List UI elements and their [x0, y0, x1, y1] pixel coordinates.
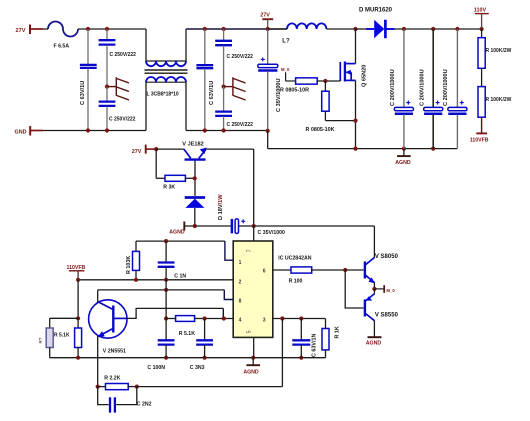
svg-text:V 2N5551: V 2N5551 — [103, 349, 126, 355]
svg-text:C 63V/1N: C 63V/1N — [312, 334, 318, 357]
svg-text:R 1K: R 1K — [335, 326, 341, 338]
capacitor C 35V/1000 decoupling — [232, 219, 285, 236]
transistor V S8550 — [365, 289, 399, 321]
svg-text:C 63V/1U: C 63V/1U — [80, 81, 86, 105]
wire — [195, 225, 232, 227]
power flag 27V mid-top — [260, 13, 273, 30]
svg-text:F 6.5A: F 6.5A — [54, 44, 70, 50]
ground AGND top section — [395, 149, 411, 167]
svg-text:AGND: AGND — [395, 160, 411, 166]
wire pin1 bend — [225, 241, 233, 260]
wire — [145, 82, 147, 131]
svg-text:6: 6 — [263, 269, 266, 275]
node — [76, 316, 80, 320]
ground AGND bottom — [243, 358, 260, 376]
node — [266, 129, 270, 133]
svg-text:C 3N3: C 3N3 — [190, 365, 205, 371]
node — [251, 356, 255, 360]
wire top mid — [186, 28, 287, 30]
node — [431, 27, 435, 31]
chassis ground #1 — [107, 77, 129, 100]
node — [455, 27, 459, 31]
svg-text:R?: R? — [38, 337, 43, 343]
resistor R 100K/2W #2 — [478, 87, 512, 133]
resistor R 3K — [156, 149, 195, 190]
wire bottom rail — [50, 357, 326, 359]
pin 7 — [247, 226, 254, 252]
node — [266, 27, 270, 31]
power flag 27V input — [16, 25, 44, 35]
svg-text:AGND: AGND — [366, 340, 382, 346]
node — [372, 287, 376, 291]
svg-text:R 103K: R 103K — [126, 256, 132, 274]
node — [164, 356, 168, 360]
node — [222, 27, 226, 31]
op-amp U1 IC UC2842AN box — [233, 241, 312, 337]
svg-text:AGND: AGND — [169, 230, 185, 236]
power flag 27V mid — [132, 145, 156, 155]
wire pin1 net — [136, 240, 225, 242]
node — [203, 128, 207, 132]
svg-text:C 250V/222: C 250V/222 — [227, 54, 254, 60]
node — [105, 27, 109, 31]
capacitor C 200V/1000U #2 — [420, 29, 443, 149]
wire — [77, 280, 79, 319]
wire pin8 bend — [224, 290, 233, 300]
wire GND rail left — [43, 130, 146, 132]
resistor R 2.2K — [98, 375, 137, 389]
node — [76, 356, 80, 360]
node — [164, 239, 168, 243]
capacitor C 250V/222 #3 — [215, 29, 253, 87]
svg-text:C 250V/222: C 250V/222 — [110, 52, 137, 58]
transistor Q 65N20 MOSFET — [340, 29, 367, 87]
wire — [185, 29, 187, 61]
transistor V 2N5551 — [89, 300, 127, 355]
capacitor C 100N — [147, 319, 174, 371]
resistor R 5.1K pin4 — [176, 316, 196, 337]
node — [252, 224, 256, 228]
wire — [356, 28, 367, 30]
power flag GND — [15, 126, 44, 136]
wire pin3 to comp — [281, 319, 283, 387]
capacitor C 250V/222 #2 — [99, 87, 136, 131]
chassis ground #2 — [224, 77, 246, 100]
capacitor C 200V/1000U #1 — [390, 29, 413, 149]
node — [480, 27, 484, 31]
transistor V S8050 — [365, 254, 399, 283]
node — [431, 147, 435, 151]
node — [96, 385, 100, 389]
node — [402, 147, 406, 151]
svg-text:V JE182: V JE182 — [182, 141, 203, 147]
node — [299, 356, 303, 360]
svg-text:C 200V/1000U: C 200V/1000U — [443, 69, 449, 106]
inductor L? — [268, 23, 356, 44]
svg-text:R 2.2K: R 2.2K — [104, 375, 120, 381]
wire — [137, 386, 283, 388]
node — [343, 268, 347, 272]
node — [164, 316, 168, 320]
svg-text:1: 1 — [239, 260, 242, 266]
capacitor C 250V/222 #4 — [215, 87, 253, 131]
wire — [43, 28, 48, 30]
net label 110VFB right — [470, 133, 489, 143]
wire MOSFET source — [355, 80, 357, 148]
pin 4 label — [239, 318, 242, 324]
svg-text:R 100: R 100 — [289, 279, 303, 285]
svg-text:27V: 27V — [16, 28, 26, 34]
wire pin3 row — [273, 318, 326, 320]
node — [135, 385, 139, 389]
svg-text:Q 65N20: Q 65N20 — [361, 65, 367, 87]
wire pin4 row — [166, 318, 233, 320]
resistor R 0805-10K — [306, 81, 356, 133]
node — [164, 278, 168, 282]
svg-text:IC UC2842AN: IC UC2842AN — [278, 255, 311, 261]
capacitor C 63V/1U #2 — [196, 29, 215, 131]
node — [353, 147, 357, 151]
pin 3 label — [263, 318, 266, 324]
svg-text:C 35V/1000: C 35V/1000 — [258, 230, 286, 236]
node — [402, 27, 406, 31]
svg-text:L 3CB8*18*10: L 3CB8*18*10 — [147, 91, 179, 97]
resistor R 0805-10R — [280, 78, 340, 94]
node — [222, 316, 226, 320]
svg-text:R 5.1K: R 5.1K — [179, 331, 195, 337]
capacitor C 63V/1U #1 — [80, 29, 97, 131]
fuse F 6.5A — [48, 22, 78, 50]
node — [164, 288, 168, 292]
wire VCC to driver — [254, 226, 375, 258]
svg-text:D 18V/1W: D 18V/1W — [218, 194, 224, 220]
svg-text:110VFB: 110VFB — [470, 137, 489, 143]
node — [203, 316, 207, 320]
wire 2N5551 emitter — [97, 336, 99, 387]
wire top right — [395, 28, 482, 30]
net label 110VFB left — [67, 265, 86, 280]
wire — [185, 82, 187, 130]
svg-text:C 35V/1000U: C 35V/1000U — [276, 78, 282, 112]
wire — [156, 148, 184, 150]
svg-text:GND: GND — [15, 129, 27, 135]
wire driver bases — [345, 270, 363, 308]
pin 1 label — [239, 260, 242, 266]
diode D MUR1620 — [359, 8, 395, 39]
node — [222, 85, 226, 89]
diode zener D 18V/1W — [185, 194, 224, 226]
transistor V JE182 — [182, 141, 206, 196]
svg-text:M_0: M_0 — [281, 67, 290, 72]
node — [280, 316, 284, 320]
svg-text:3: 3 — [263, 318, 266, 324]
wire pin8 row — [98, 289, 225, 291]
resistor R 100K/2W #1 — [478, 29, 512, 87]
pin 2 label — [239, 279, 242, 285]
pin 5 label — [247, 330, 253, 333]
svg-text:AGND: AGND — [243, 369, 259, 375]
wire pin6 row — [273, 269, 292, 271]
svg-text:R 5.1K: R 5.1K — [54, 333, 70, 339]
resistor R? left — [38, 318, 53, 357]
svg-text:27V: 27V — [132, 149, 142, 155]
node — [154, 147, 158, 151]
capacitor C 35V/1000U input — [258, 29, 282, 131]
net label gate drive — [281, 67, 296, 81]
node — [222, 128, 226, 132]
wire 2N5551 base — [127, 308, 224, 318]
svg-text:27V: 27V — [260, 13, 270, 19]
svg-text:R 3K: R 3K — [163, 185, 175, 191]
svg-text:C 250V/222: C 250V/222 — [109, 116, 136, 122]
wire emitter JE182 — [206, 149, 254, 226]
node — [193, 176, 197, 180]
capacitor C 63V/1N — [292, 319, 317, 358]
wire 2N5551 collector — [97, 290, 99, 302]
net label driver out — [374, 285, 395, 293]
node — [353, 27, 357, 31]
svg-text:V S8550: V S8550 — [375, 313, 399, 319]
wire — [165, 280, 167, 319]
node — [105, 128, 109, 132]
svg-text:4: 4 — [239, 318, 242, 324]
node — [76, 278, 80, 282]
pin 6 label — [263, 269, 266, 275]
svg-text:5: 5 — [247, 330, 253, 333]
resistor R 103K — [126, 241, 139, 280]
node — [105, 85, 109, 89]
wire — [145, 29, 147, 61]
node — [323, 79, 327, 83]
node — [299, 316, 303, 320]
resistor R 1K — [322, 319, 341, 358]
ground AGND driver — [366, 337, 382, 346]
capacitor C 3N3 — [190, 319, 213, 371]
power flag 110V — [474, 8, 489, 30]
capacitor C 2N2 — [98, 387, 152, 413]
node — [86, 128, 90, 132]
capacitor C 250V/222 #1 — [99, 29, 137, 87]
node — [86, 27, 90, 31]
inductor L 3CB8*18*10 common-mode choke — [145, 61, 188, 97]
svg-text:V S8050: V S8050 — [375, 254, 399, 260]
svg-text:8: 8 — [239, 298, 242, 304]
wire AGND rail top section — [268, 148, 458, 150]
svg-text:7: 7 — [247, 249, 253, 252]
capacitor C 200V/1000U #3 — [443, 29, 467, 149]
svg-text:R 0805-10K: R 0805-10K — [306, 127, 335, 133]
svg-text:2: 2 — [239, 279, 242, 285]
svg-text:C 2N2: C 2N2 — [137, 401, 152, 407]
node — [203, 356, 207, 360]
wire pin2 row — [78, 279, 233, 281]
wire S8550 collector — [373, 321, 375, 337]
svg-text:R 100K/2W: R 100K/2W — [486, 48, 512, 54]
svg-text:C 63V/1U: C 63V/1U — [209, 81, 215, 105]
net label AGND mid — [169, 222, 195, 236]
wire S8050 emitter — [373, 283, 375, 289]
svg-text:C 1N: C 1N — [174, 274, 186, 280]
resistor R 100 — [289, 267, 346, 285]
svg-text:C 100N: C 100N — [147, 365, 165, 371]
wire — [78, 28, 146, 30]
svg-text:110V: 110V — [474, 8, 487, 14]
node — [134, 278, 138, 282]
svg-text:L?: L? — [282, 39, 290, 45]
svg-text:R 100K/2W: R 100K/2W — [486, 97, 512, 103]
svg-text:C 250V/222: C 250V/222 — [227, 122, 254, 128]
capacitor C 1N — [158, 241, 187, 280]
svg-text:C 200V/1000U: C 200V/1000U — [390, 69, 396, 106]
svg-text:M_0: M_0 — [386, 288, 395, 293]
node — [353, 119, 357, 123]
svg-text:R 0805-10R: R 0805-10R — [280, 88, 309, 94]
wire pin5 — [253, 337, 255, 357]
wire — [50, 317, 78, 319]
node — [203, 27, 207, 31]
svg-text:C 200V/1000U: C 200V/1000U — [420, 69, 426, 106]
wire — [267, 131, 269, 149]
resistor R 5.1K shunt — [54, 318, 82, 357]
wire GND rail right — [186, 130, 268, 132]
node — [193, 224, 197, 228]
pin 8 label — [239, 298, 242, 304]
svg-text:D MUR1620: D MUR1620 — [359, 8, 393, 14]
